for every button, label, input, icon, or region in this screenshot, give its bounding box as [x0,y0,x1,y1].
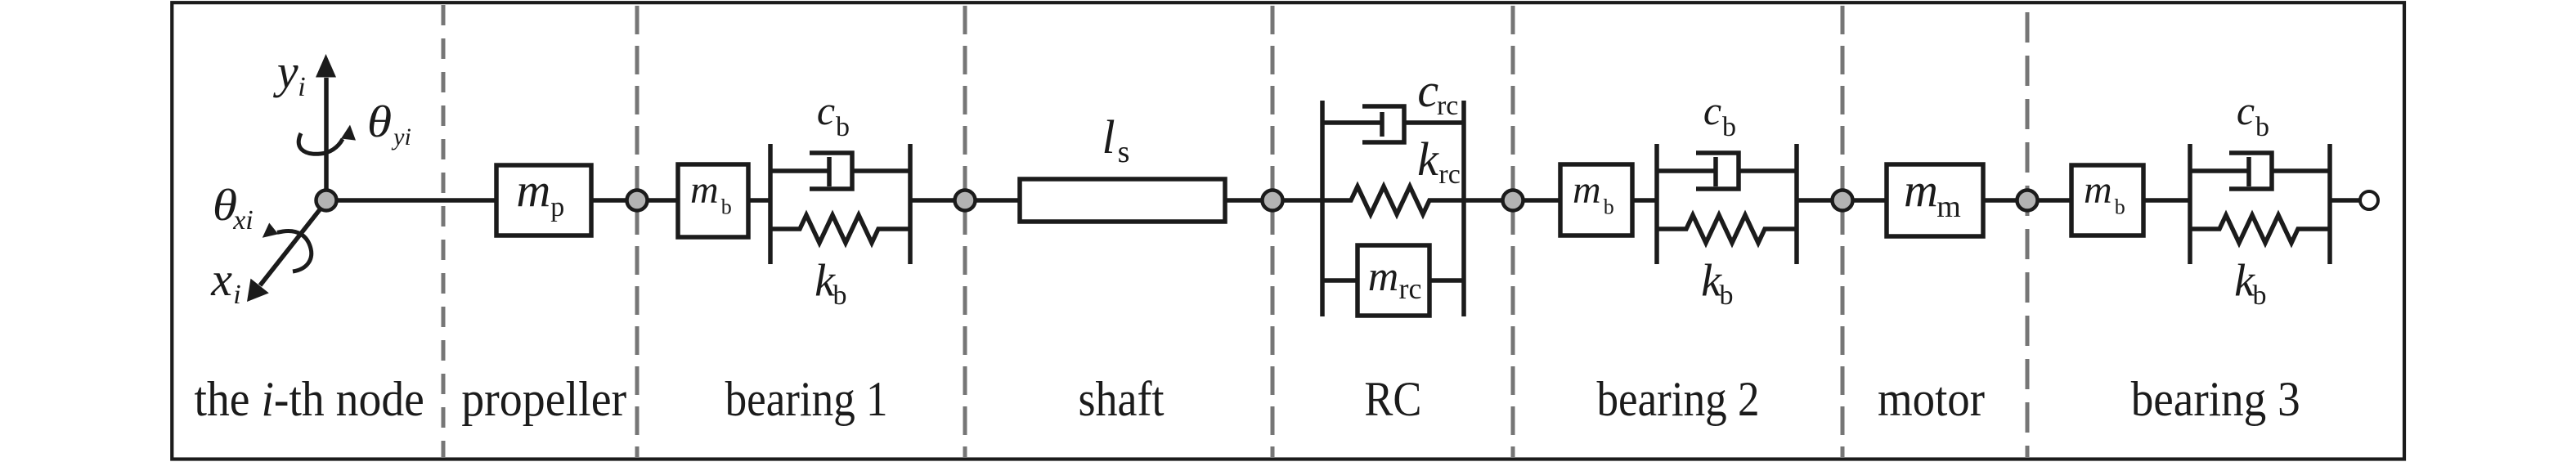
svg-text:the i-th node: the i-th node [195,372,424,426]
svg-text:i: i [298,72,305,102]
svg-text:bearing 2: bearing 2 [1597,372,1760,426]
svg-text:b: b [1720,280,1734,311]
svg-text:l: l [1102,110,1115,164]
svg-text:m: m [1936,190,1961,224]
svg-text:rc: rc [1399,272,1422,305]
svg-text:xi: xi [232,205,254,235]
svg-text:RC: RC [1364,372,1421,426]
svg-text:yi: yi [391,123,411,150]
svg-text:m: m [2084,168,2112,212]
svg-text:c: c [1703,87,1721,133]
svg-text:x: x [210,253,232,306]
svg-text:p: p [550,192,564,222]
svg-text:propeller: propeller [461,372,626,426]
svg-text:s: s [1118,135,1130,169]
svg-text:b: b [721,195,732,219]
svg-text:motor: motor [1878,372,1985,426]
svg-text:b: b [1722,112,1736,142]
svg-text:b: b [2255,112,2269,142]
svg-text:m: m [1368,253,1399,300]
svg-text:b: b [836,112,850,142]
svg-text:m: m [516,164,550,217]
svg-text:c: c [2237,87,2255,133]
svg-text:θ: θ [367,96,392,146]
svg-text:b: b [833,280,847,311]
svg-text:b: b [1604,195,1614,219]
svg-text:i: i [233,280,240,310]
svg-text:y: y [273,45,298,98]
svg-text:bearing 3: bearing 3 [2131,372,2300,426]
svg-text:b: b [2253,280,2267,311]
svg-text:k: k [1417,132,1439,186]
svg-text:rc: rc [1438,159,1460,190]
svg-text:bearing 1: bearing 1 [725,372,888,426]
svg-text:c: c [1417,64,1438,117]
svg-text:rc: rc [1437,91,1458,121]
svg-text:m: m [690,168,719,212]
svg-text:m: m [1904,164,1938,217]
svg-text:b: b [2115,195,2125,219]
svg-text:c: c [817,87,835,133]
svg-text:m: m [1573,168,1601,212]
svg-text:shaft: shaft [1079,372,1165,426]
